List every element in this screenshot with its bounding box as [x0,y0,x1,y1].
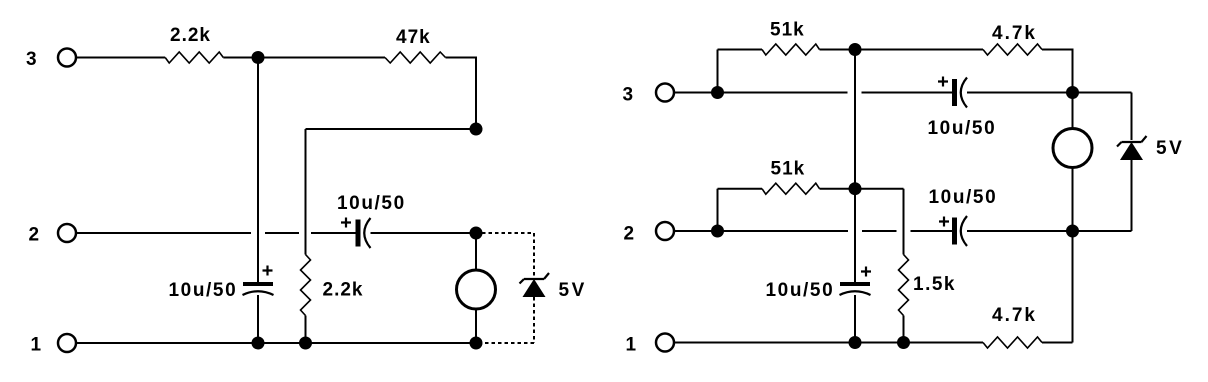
meter/lamp M2 circle [1053,129,1092,168]
label 10u/50 (C5) [766,280,835,301]
junction bus at C2 [252,337,265,350]
terminal 1 (left) [58,334,76,352]
svg-text:51k: 51k [771,159,806,180]
junction node B [470,123,483,136]
wire net2 segment a [77,232,251,234]
svg-text:2: 2 [624,224,636,245]
wire net3 segment a [718,92,848,94]
wire node C down to M1 [475,233,477,270]
capacitor C2 10u/50 vertical [243,282,274,295]
wire M1 to bus junction [475,309,477,343]
wire corner down to node F [1072,49,1074,93]
node 2 label (right) [624,224,636,245]
wire rail2 to R6 [718,188,763,190]
wire node F to zener corner [1073,92,1132,94]
svg-text:1.5k: 1.5k [913,274,956,295]
label 4.7k (R5) [992,23,1037,44]
wire R5 to corner [1042,49,1073,51]
svg-text:10u/50: 10u/50 [766,280,835,301]
dashed wire zener top lead [533,233,535,277]
wire net2 right segment b [862,230,897,232]
svg-text:51k: 51k [770,20,805,41]
svg-text:4.7k: 4.7k [992,305,1037,326]
label 10u/50 (C4) [929,187,998,208]
wire R7 lower lead to bus [903,316,905,343]
wire node E down through net3 [854,50,856,283]
terminal 3 (right) [656,84,674,102]
wire corner down R3 branch upper lead [305,129,307,255]
resistor R4 51k [762,44,820,55]
wire net2 segment c [311,232,356,234]
junction bus at R3 [299,337,312,350]
junction node C [470,227,483,240]
wire net2 right segment a [718,230,849,232]
wire zener corner to node I [1073,230,1132,232]
label 10u/50 (C3) [928,118,997,139]
dashed wire node C to zener top corner [482,232,534,234]
wire terminal2 to node G [675,230,718,232]
plus mark C5 [861,267,871,277]
junction bus at M1 [470,337,483,350]
wire corner down R7 upper lead [903,189,905,255]
svg-text:2: 2 [29,225,41,246]
label 1.5k (R7) [913,274,956,295]
wire corner down to node B [475,57,477,130]
wire corner up to node I [1072,231,1074,343]
wire bus net1 right segment a [675,342,983,344]
node 3 label (right) [623,85,635,106]
junction bus at C5 [849,336,862,349]
junction node I [1066,225,1079,238]
wire R4 to node E [820,49,856,51]
resistor R7 1.5k vertical [899,255,909,316]
label 2.2k (R1) [170,25,211,46]
terminal 3 (left) [58,49,76,67]
wire R6 to node H [820,188,856,190]
capacitor C1 10u/50 horizontal [356,218,371,248]
junction node E [849,43,862,56]
terminal 2 (left) [58,224,76,242]
junction node D [711,86,724,99]
resistor R1 2.2k [165,52,223,63]
label 51k (R4) [770,20,805,41]
capacitor C4 10u/50 horizontal [952,216,967,246]
node 2 label (left) [29,225,41,246]
junction bus at R7 [897,336,910,349]
svg-text:4.7k: 4.7k [992,23,1037,44]
label 5V (D1) [559,280,587,301]
svg-text:1: 1 [31,335,43,356]
wire zener top lead [1131,93,1133,141]
svg-text:3: 3 [623,85,635,106]
wire node A down to C2 [257,58,259,283]
wire C1 to node C [371,232,477,234]
node 1 label (right) [626,335,638,356]
zener diode D2 5V [1117,136,1147,160]
zener diode D1 5V [520,273,550,297]
svg-text:47k: 47k [396,27,431,48]
junction node G [711,225,724,238]
wire node F down to M2 [1072,93,1074,130]
resistor R6 51k [762,183,820,194]
meter/lamp M1 circle [457,270,496,309]
junction node F [1066,86,1079,99]
capacitor C5 10u/50 vertical [840,282,871,295]
wire M2 to node I [1072,168,1074,232]
plus mark C1 [341,218,351,228]
svg-text:2.2k: 2.2k [323,280,364,301]
plus mark C3 [938,77,948,87]
label 10u/50 (C2) [169,280,238,301]
wire C4 to node I [967,230,1073,232]
node 1 label (left) [31,335,43,356]
label 10u/50 (C1) [337,193,406,214]
wire node G up to rail2 [717,189,719,231]
wire net2 right segment c [911,230,953,232]
wire zener bottom lead [1131,160,1133,231]
svg-text:10u/50: 10u/50 [337,193,406,214]
svg-text:5V: 5V [1156,138,1184,159]
terminal 2 (right) [656,222,674,240]
label 47k (R2) [396,27,431,48]
wire R2 to top-right corner [446,57,477,59]
junction node H [849,182,862,195]
wire node D up to rail [717,50,719,93]
resistor R8 4.7k [983,337,1042,348]
wire C3 to node F [967,92,1073,94]
wire net3 segment b [862,92,953,94]
wire R1 to node A [223,57,258,59]
svg-text:1: 1 [626,335,638,356]
wire R3 lower lead to bus [305,316,307,344]
wire node A to R2 [258,57,385,59]
wire node H to R7 corner [855,188,904,190]
svg-text:10u/50: 10u/50 [928,118,997,139]
wire C5 to bus [854,295,856,343]
wire R8 to corner [1042,342,1073,344]
capacitor C3 10u/50 horizontal [952,78,967,108]
wire C2 to bus [257,295,259,343]
svg-text:5V: 5V [559,280,587,301]
label 5V (D2) [1156,138,1184,159]
wire net2 segment b [265,232,299,234]
wire terminal3 to R1 [77,57,165,59]
resistor R2 47k [385,52,446,63]
label 2.2k (R3) [323,280,364,301]
wire node B left to R3 branch corner [306,128,477,130]
wire bus net1 (left) [77,342,476,344]
resistor R3 2.2k vertical [301,255,311,316]
svg-text:3: 3 [26,49,38,70]
node 3 label (left) [26,49,38,70]
svg-text:10u/50: 10u/50 [929,187,998,208]
terminal 1 (right) [656,334,674,352]
plus mark C2 [263,266,273,276]
svg-text:10u/50: 10u/50 [169,280,238,301]
wire node E to R5 [855,49,983,51]
plus mark C4 [939,217,949,227]
dashed wire zener to bus junction [482,342,534,344]
wire rail to R4 [718,49,763,51]
wire terminal3 to node D [675,92,718,94]
label 51k (R6) [771,159,806,180]
label 4.7k (R8) [992,305,1037,326]
dashed wire zener bottom lead [533,297,535,343]
svg-text:2.2k: 2.2k [170,25,211,46]
resistor R5 4.7k [983,44,1042,55]
junction node A [252,51,265,64]
